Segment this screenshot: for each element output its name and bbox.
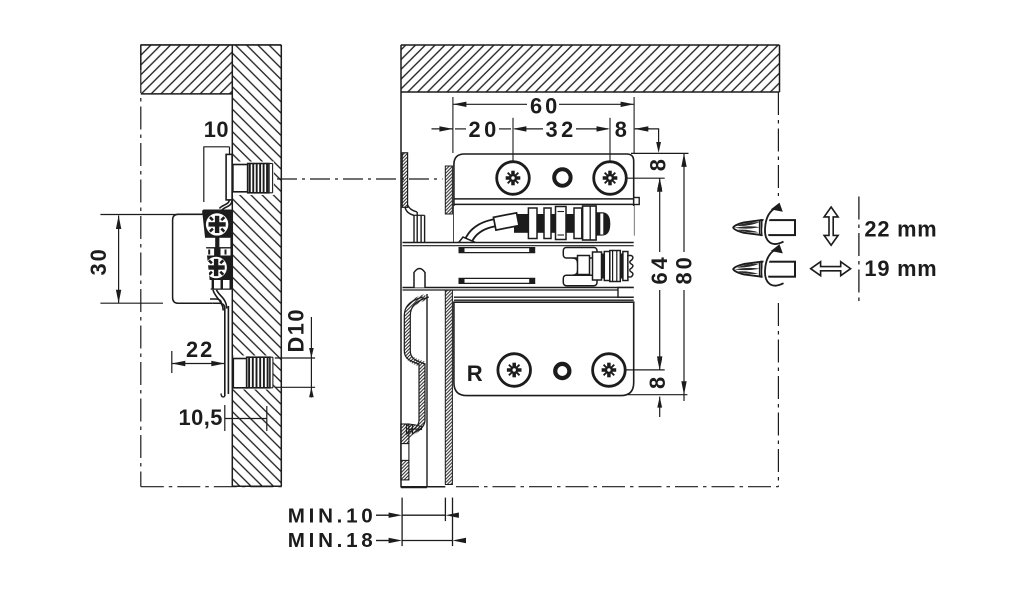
dimension 64 [659, 178, 661, 252]
svg-text:D10: D10 [284, 308, 309, 353]
cable / lever arc [467, 221, 512, 247]
bracket body outline (left view) [173, 214, 213, 303]
cam housing block (left view) [202, 210, 232, 290]
flange tab right [634, 198, 640, 205]
tick: lower screw axis [626, 369, 665, 371]
cam rings [528, 208, 537, 239]
svg-text:MIN.10: MIN.10 [288, 505, 377, 528]
svg-text:8: 8 [645, 377, 670, 389]
tick: plate top edge [631, 152, 689, 154]
wall: top board section (left view) [141, 45, 233, 94]
wall: top board section (front view) [401, 45, 780, 92]
cabinet rear panel edge strip (lower) [445, 290, 452, 485]
arm slot lower [459, 277, 536, 279]
wall outlines (front view) [401, 44, 780, 46]
bottom edge solid segment [401, 486, 445, 488]
lower euro screw / D10 dowel (left view) [233, 356, 273, 390]
cam block slot details [205, 238, 230, 247]
right edge slot below arm [618, 288, 634, 298]
svg-text:60: 60 [530, 94, 560, 119]
screw B (top right, pozidriv) [594, 162, 627, 195]
svg-text:8: 8 [615, 117, 627, 142]
svg-text:22 mm: 22 mm [864, 216, 937, 241]
wall hanging rail profile (section) [402, 153, 407, 208]
centerline at measurement labels (dash-dot) [858, 197, 860, 304]
screw A (top left, pozidriv) [497, 162, 530, 195]
chain dimensions 20 / 32 / 8 [455, 128, 466, 130]
cam body black [514, 214, 596, 233]
extension line screw A [512, 118, 514, 178]
lower adjusting cam fork [563, 248, 597, 259]
extension line screw B [609, 118, 611, 178]
bottom mounting plate (front view) [454, 302, 634, 395]
plate fold lines [454, 198, 634, 200]
svg-text:30: 30 [86, 247, 111, 275]
dimension 60 (overall width) [452, 97, 454, 153]
wire S-bend cam block to lower plate [217, 290, 227, 309]
double arrow horizontal (19 mm) [811, 262, 851, 276]
svg-text:80: 80 [672, 254, 697, 284]
svg-text:MIN.18: MIN.18 [288, 529, 377, 552]
MIN extension ticks [401, 498, 403, 546]
dimension 80 [683, 153, 685, 252]
svg-text:32: 32 [546, 117, 577, 142]
cable ferrule [493, 213, 519, 230]
top mounting plate (front view) [454, 154, 634, 243]
upper euro screw (left view side section) [233, 162, 274, 196]
bracket lower plate (left view) [224, 308, 226, 396]
rail right edge [426, 294, 428, 488]
centerline: cabinet left edge (dash-dot) [140, 70, 142, 487]
cabinet rear panel edge strip (upper) [445, 166, 452, 214]
tick: plate bottom edge [628, 394, 687, 396]
center hole (bottom plate) [555, 364, 569, 378]
bracket flange plate on wall face (left view) [226, 154, 232, 200]
cable end wedge [456, 237, 475, 247]
lower cam threaded end (scalloped) [628, 256, 633, 277]
screwdriver bit (height adjustment) [762, 220, 796, 235]
centerline: bottom boundary (dash-dot) [456, 486, 778, 488]
cam screw C2 (bottom) [205, 256, 228, 279]
center hole (top plate) [554, 169, 570, 185]
lower cam screw stack [593, 252, 602, 280]
svg-text:64: 64 [647, 254, 672, 284]
screw D (bottom right, pozidriv) [593, 354, 626, 387]
arm hook notch [414, 269, 425, 288]
svg-text:R: R [467, 361, 483, 386]
svg-text:10: 10 [204, 117, 229, 142]
wire S-bend flange to cam block [220, 200, 230, 209]
suspension arm (horizontal) [403, 243, 634, 288]
rail bottom bar (hatched) [409, 424, 422, 430]
svg-text:10,5: 10,5 [179, 405, 223, 430]
screwdriver bit (depth adjustment) [762, 262, 796, 277]
rail lower S-band (hatched) [407, 297, 426, 434]
screw C (bottom left, pozidriv) [498, 354, 531, 387]
cam end cap (black D) [596, 212, 610, 235]
leader elbow from 8 to plate-top tick [635, 129, 659, 150]
wall: vertical side panel section (left view) [232, 45, 281, 486]
wall outlines (left view) [140, 44, 281, 46]
plate fold lines below arm [454, 296, 634, 298]
centerline through upper screw (dash-dot) [244, 178, 443, 180]
arm slot upper [459, 247, 536, 249]
double arrow vertical (22 mm) [824, 207, 838, 245]
centerline: bottom boundary left view (dash-dot) [141, 486, 285, 488]
svg-text:22: 22 [186, 337, 214, 362]
tick: upper screw axis [626, 177, 665, 179]
svg-text:8: 8 [646, 159, 671, 171]
svg-text:19 mm: 19 mm [864, 256, 937, 281]
centerline: right boundary (dash-dot) [777, 92, 779, 196]
cam screw C1 (top) [205, 212, 229, 236]
upper adjusting cam assembly [454, 206, 634, 246]
svg-text:20: 20 [469, 117, 500, 142]
step from body to lower plate [212, 303, 225, 308]
